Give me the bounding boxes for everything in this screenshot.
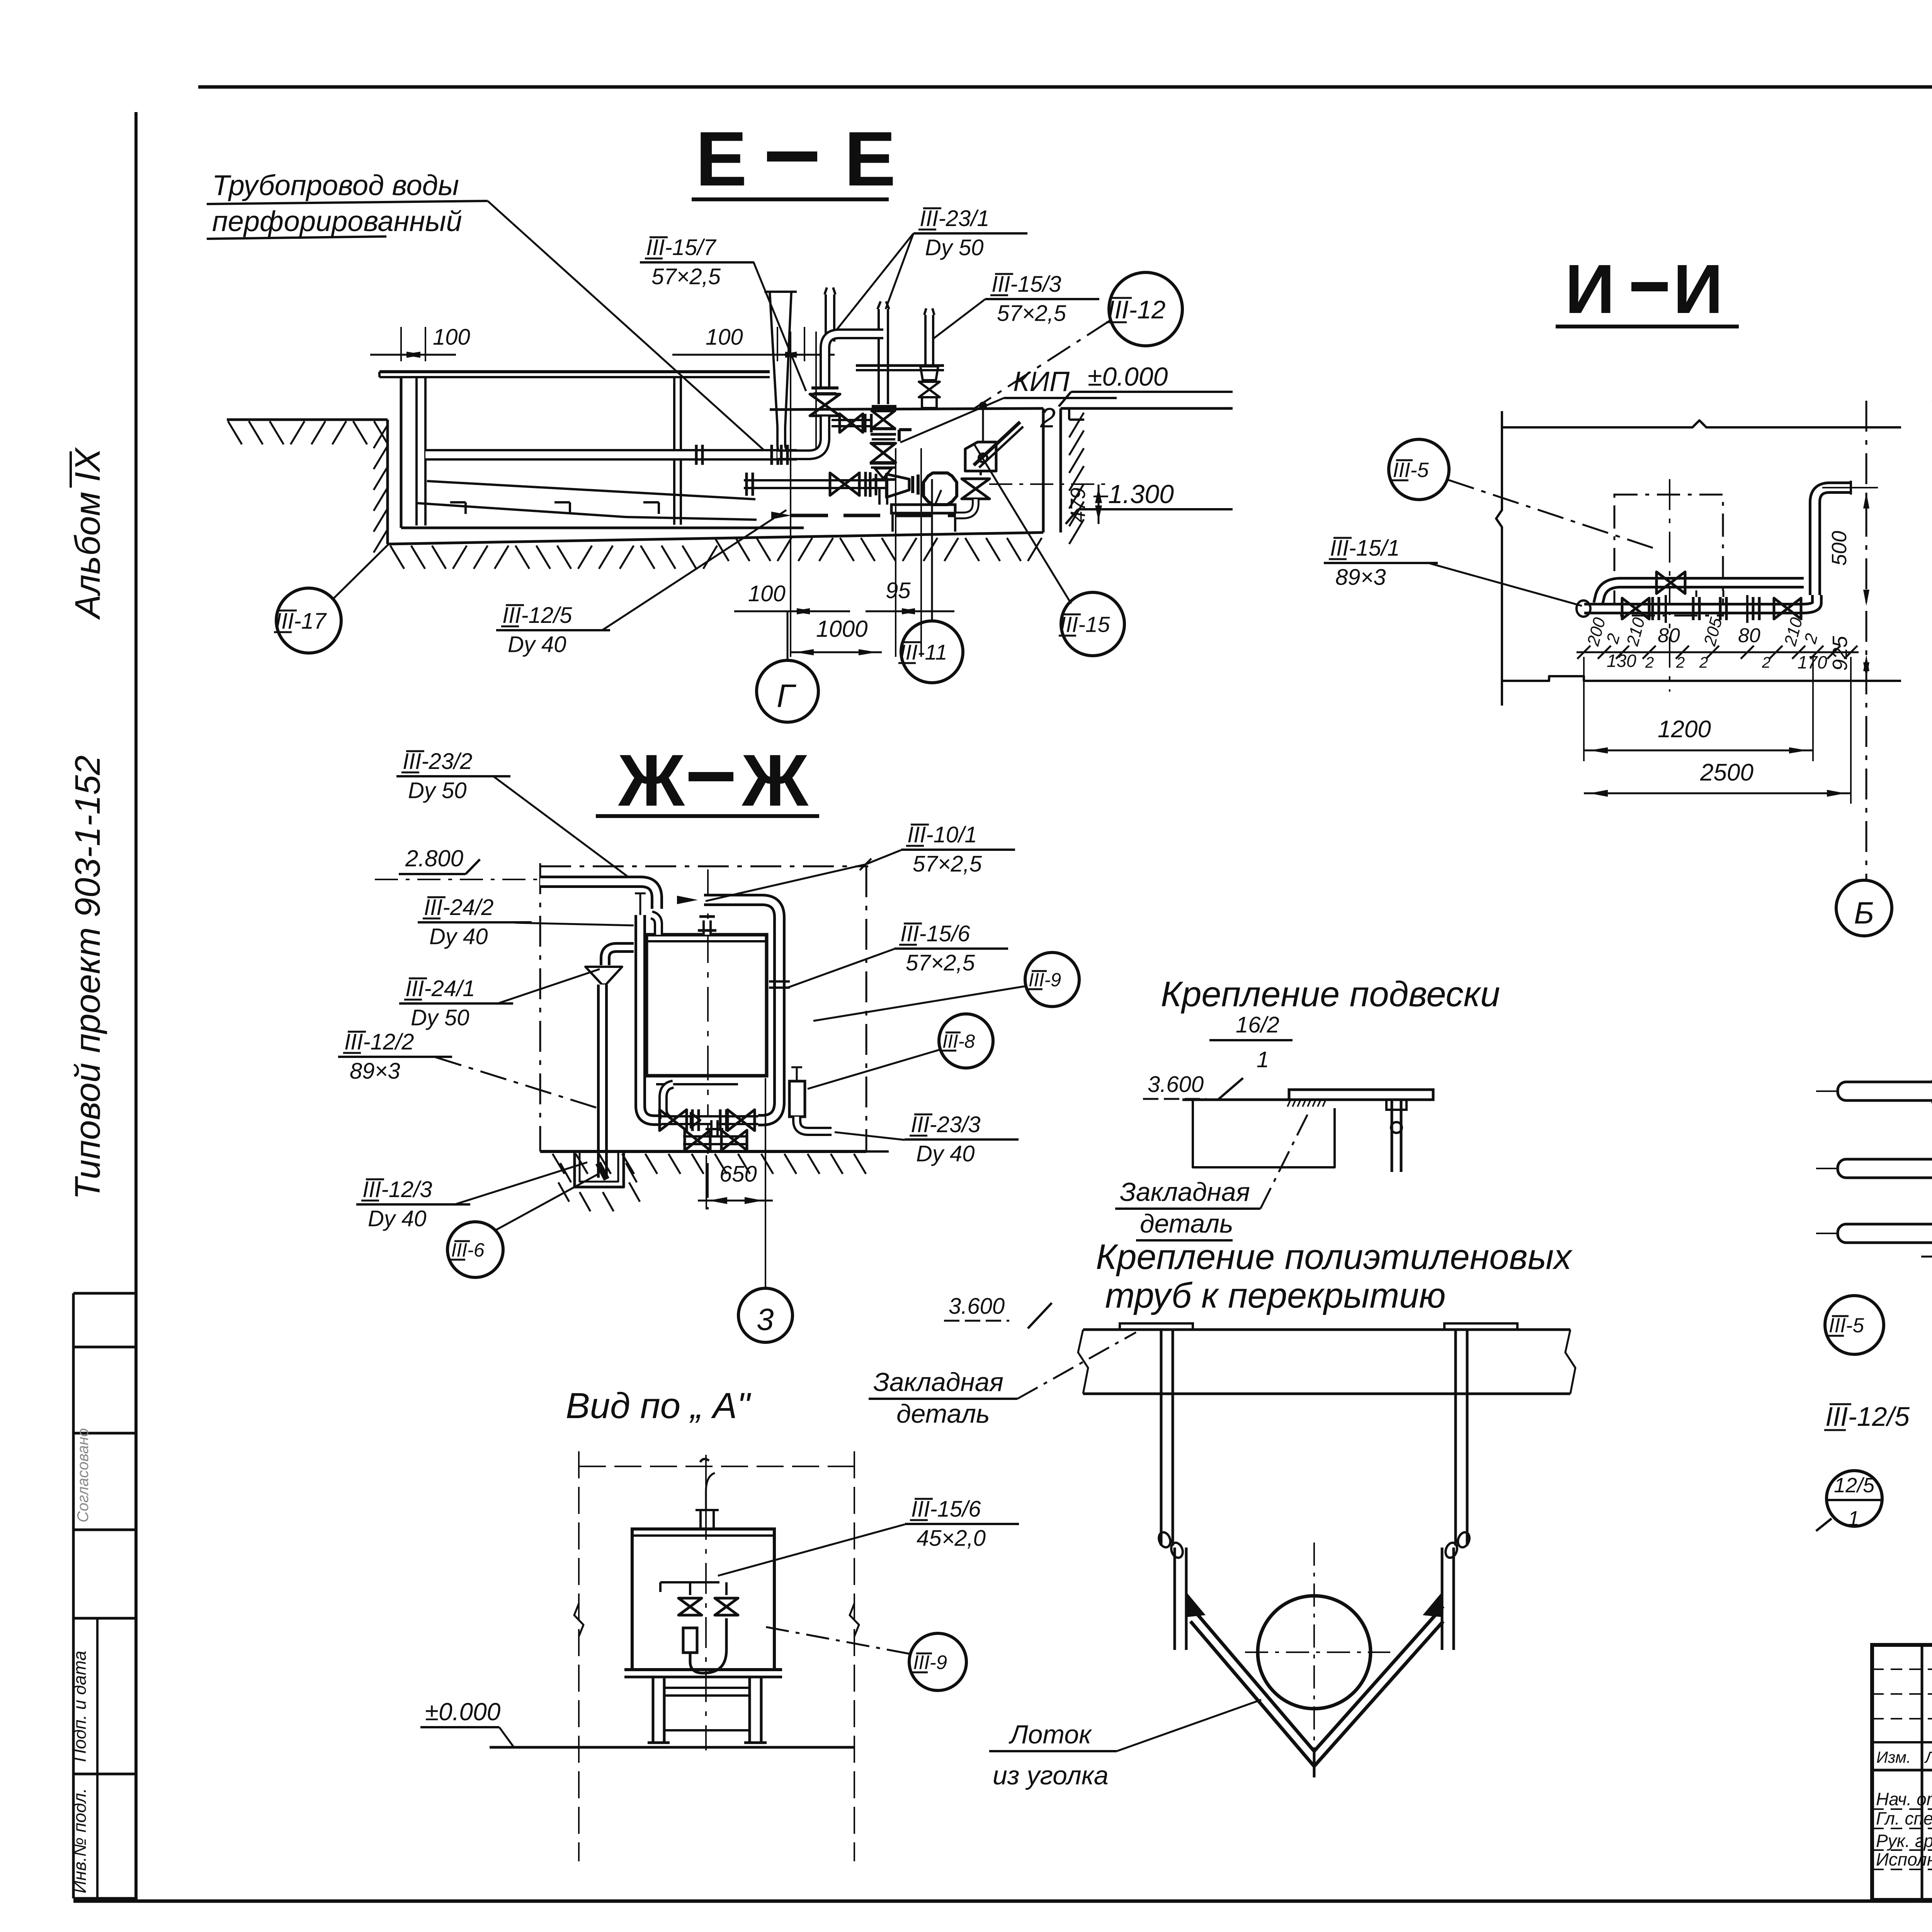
KIP level instrument box: [965, 442, 996, 471]
svg-text:III-15/6: III-15/6: [911, 1497, 981, 1522]
internal vessel: [683, 1628, 697, 1653]
svg-text:±0.000: ±0.000: [425, 1698, 501, 1726]
svg-text:III-11: III-11: [900, 640, 947, 664]
svg-text:2: 2: [1762, 654, 1770, 671]
chain dimension line I-I: [1577, 651, 1859, 653]
title block name rows: [1872, 1808, 1932, 1810]
svg-text:Dy 40: Dy 40: [429, 924, 488, 949]
position circle III-9 (Zh-Zh): [1025, 952, 1079, 1007]
hanger strap right lower: [1441, 1548, 1444, 1650]
supply pipe from wall (III-23/2): [540, 882, 657, 909]
ground line left of pit: [227, 418, 388, 421]
leader III-15/6 view A: [718, 1524, 905, 1576]
svg-text:Dy 40: Dy 40: [368, 1206, 427, 1231]
ceiling line: [1182, 1099, 1433, 1101]
svg-text:Е: Е: [844, 116, 896, 202]
ceiling slab bottom line: [1083, 1393, 1570, 1395]
embedded plate podveska: [1289, 1090, 1433, 1100]
tank body Zh-Zh: [646, 935, 767, 1076]
svg-text:Изм.: Изм.: [1876, 1748, 1911, 1766]
KIP connection rod: [982, 408, 984, 442]
svg-text:Альбом IX: Альбом IX: [68, 447, 107, 620]
perforated water pipe in tank: [425, 449, 797, 461]
funnel drain pipe: [597, 985, 608, 1178]
leader III-15/3: [934, 299, 985, 338]
flange disc on down pipe: [811, 386, 838, 389]
svg-text:Dy 50: Dy 50: [411, 1005, 469, 1030]
tank centerline view A: [705, 1455, 707, 1750]
sheet frame top border: [198, 85, 1932, 89]
manifold funnel tee: [691, 1113, 700, 1128]
svg-text:Ж: Ж: [618, 740, 685, 821]
svg-text:III-12/2: III-12/2: [344, 1029, 414, 1054]
pipe circle in trough: [1258, 1596, 1371, 1709]
svg-text:Типовой проект 903-1-152: Типовой проект 903-1-152: [68, 755, 107, 1200]
flange pair on loop riser: [769, 980, 790, 983]
leader KIP/2: [900, 398, 1004, 442]
legend pipe symbol podveska: [1816, 1233, 1932, 1234]
screwed valve on III-15/3: [919, 382, 940, 397]
svg-text:Г: Г: [777, 678, 796, 714]
room boundary dash-dot left: [539, 863, 541, 1151]
leader III-23/3: [835, 1132, 905, 1140]
leader III-15/1: [1430, 563, 1582, 606]
leader III-12/3: [454, 1162, 587, 1205]
tank bottom: [401, 527, 804, 529]
svg-text:Ж: Ж: [742, 740, 809, 821]
svg-text:3: 3: [757, 1302, 774, 1337]
small riser III-15/3 pipe: [924, 315, 934, 366]
legend circle 12/5 over 1: [1827, 1471, 1882, 1526]
suction pipe to pump: [744, 479, 886, 489]
svg-text:Согласовано: Согласовано: [75, 1428, 92, 1522]
rod nut: [1386, 1100, 1406, 1110]
tank sloped bottom lines: [427, 481, 755, 499]
sump pit under funnel pipe: [575, 1151, 624, 1187]
svg-text:деталь: деталь: [1140, 1209, 1233, 1238]
inlet loop pipe III-10/1: [704, 900, 779, 1120]
svg-text:III-12/5: III-12/5: [1825, 1401, 1910, 1432]
room boundary dash-dot top: [540, 866, 868, 867]
riser pipe III-24/2: [640, 915, 662, 1120]
supply riser III-23/1 (vertical open pipe): [878, 309, 889, 404]
svg-text:Лист: Лист: [1924, 1748, 1932, 1766]
drain overflow device: [789, 1081, 805, 1117]
gate valve on down pipe: [810, 394, 840, 416]
hanger link ovals right: [1456, 1531, 1471, 1549]
leader III-8: [808, 1049, 940, 1089]
link between manifold rows: [710, 1120, 719, 1140]
dim extension lines lower: [790, 332, 791, 657]
svg-text:Нач. отд: Нач. отд: [1876, 1789, 1932, 1809]
tank top nozzle view A: [699, 1510, 702, 1529]
pump baseplate: [891, 505, 955, 513]
leader III-11: [931, 479, 933, 621]
slab section block: [1193, 1100, 1335, 1167]
svg-text:III-15/1: III-15/1: [1330, 536, 1400, 561]
svg-text:III-12: III-12: [1107, 295, 1165, 324]
tank rim slab: [379, 370, 770, 373]
link pipe with horizontal valve: [832, 419, 872, 427]
upper pipe I-I: [1598, 583, 1799, 604]
internal pipe assembly: [660, 1581, 719, 1583]
svg-text:Рук. гр.: Рук. гр.: [1876, 1831, 1932, 1851]
pit floor: [388, 532, 1043, 544]
pump foundation: [891, 513, 894, 532]
svg-text:1200: 1200: [1658, 716, 1711, 743]
svg-text:Б: Б: [1854, 896, 1874, 930]
svg-text:2: 2: [1699, 654, 1708, 671]
manifold valves row 2: [685, 1130, 710, 1150]
svg-text:III-15/6: III-15/6: [900, 921, 970, 946]
pump shaft flanges: [911, 476, 914, 493]
tank interior support column: [673, 377, 675, 525]
sheet frame left border: [134, 112, 138, 1901]
svg-text:95: 95: [886, 578, 911, 603]
weld hatch under plate: [1287, 1100, 1291, 1107]
pump casing cone: [886, 474, 909, 497]
wall line I-I left: [1496, 411, 1502, 706]
position circle III-12: [1109, 272, 1182, 346]
svg-text:1: 1: [1848, 1507, 1859, 1530]
leader III-9: [813, 986, 1026, 1021]
leader III-6: [495, 1172, 603, 1230]
section mark circle G: [757, 660, 818, 722]
upper pipe valve: [1656, 572, 1685, 594]
embedded plate right: [1444, 1323, 1517, 1330]
svg-text:III-23/1: III-23/1: [920, 206, 990, 231]
svg-text:III-5: III-5: [1829, 1314, 1864, 1337]
svg-text:Крепление подвески: Крепление подвески: [1161, 975, 1500, 1014]
weld triangles: [1186, 1592, 1206, 1617]
internal u-pipe: [690, 1618, 726, 1673]
svg-text:Dy 50: Dy 50: [925, 235, 984, 260]
title block left table rows upper: [1872, 1668, 1932, 1670]
lower pipe I-I: [1584, 595, 1817, 609]
vent rod on riser III-24/2: [639, 893, 641, 915]
leader III-12/5: [603, 510, 786, 630]
svg-text:Dy 50: Dy 50: [408, 778, 467, 803]
svg-text:Крепление полиэтиленовых: Крепление полиэтиленовых: [1096, 1237, 1573, 1277]
svg-text:III-15: III-15: [1060, 612, 1110, 637]
leader III-15/6: [787, 949, 894, 988]
svg-text:925: 925: [1828, 636, 1852, 671]
column flange disc 2: [870, 462, 896, 465]
pump tee column: [878, 480, 881, 505]
svg-text:Инв.№ подл.: Инв.№ подл.: [70, 1788, 90, 1893]
drain pipe dashed with arrow: [956, 499, 976, 515]
overflow funnel: [585, 967, 622, 985]
tank top right nozzle with flange: [702, 920, 712, 935]
svg-text:перфорированный: перфорированный: [212, 205, 462, 237]
svg-text:2.800: 2.800: [405, 845, 463, 871]
rod eyelet: [1391, 1122, 1402, 1133]
manifold pipe row 2: [683, 1135, 748, 1145]
vertical dim arrows on axis I-I: [1863, 492, 1869, 509]
svg-text:57×2,5: 57×2,5: [906, 950, 975, 975]
svg-text:–1.300: –1.300: [1093, 480, 1174, 509]
leader III-23/2: [494, 777, 641, 887]
svg-text:±0.000: ±0.000: [1088, 362, 1168, 391]
legend pipe symbol opora nepodvizhnaya: [1816, 1090, 1932, 1092]
svg-text:III-6: III-6: [451, 1239, 485, 1261]
tank Vid po A: [632, 1529, 774, 1670]
svg-text:57×2,5: 57×2,5: [997, 301, 1066, 326]
valve under KIP: [962, 479, 990, 499]
leader III-9 view A: [760, 1626, 910, 1654]
column flange disc 1: [872, 405, 896, 408]
ceiling slab top line: [1083, 1328, 1570, 1331]
svg-text:III-23/2: III-23/2: [403, 749, 473, 774]
svg-text:деталь: деталь: [896, 1399, 990, 1429]
position circle III-15: [1061, 592, 1124, 656]
leaders III-23/1: [886, 233, 913, 309]
svg-text:12/5: 12/5: [1834, 1474, 1875, 1497]
floor line I-I: [1502, 676, 1901, 681]
svg-text:III-15/7: III-15/7: [646, 235, 717, 260]
svg-text:Гл. спец.: Гл. спец.: [1876, 1808, 1932, 1828]
svg-text:Dy 40: Dy 40: [508, 632, 566, 657]
position circle III-11: [901, 621, 963, 683]
legend position circle III-5: [1825, 1296, 1884, 1354]
svg-text:2500: 2500: [1700, 759, 1753, 786]
svg-text:труб к перекрытию: труб к перекрытию: [1105, 1276, 1446, 1315]
sump hatch: [560, 1163, 571, 1182]
leader III-24/1: [497, 969, 600, 1004]
floor line Zh-Zh: [540, 1150, 866, 1153]
equipment dashed box: [1614, 495, 1723, 616]
section mark circle B: [1836, 880, 1892, 936]
svg-text:100: 100: [433, 325, 470, 350]
legend pipe symbol opora podvizhnaya: [1816, 1168, 1932, 1169]
svg-text:III-24/2: III-24/2: [424, 895, 494, 920]
svg-text:2: 2: [1645, 654, 1654, 671]
title block outer frame: [1872, 1645, 1932, 1900]
title block left table verticals: [1921, 1645, 1923, 1900]
level line 2.800 dashed: [375, 879, 537, 880]
V-trough inner: [1190, 1621, 1443, 1766]
centerline right I-I dash-dot: [1866, 401, 1867, 879]
svg-text:III-24/1: III-24/1: [405, 976, 475, 1001]
ground line middle (pump floor): [770, 408, 1043, 410]
ground hatch below pit floor: [390, 546, 404, 569]
svg-text:100: 100: [706, 325, 743, 350]
down pipe elbow into tank pipe: [777, 417, 825, 455]
leader III-24/2: [515, 923, 634, 925]
tank base flange: [624, 1668, 782, 1671]
ground line right of pit: [1061, 407, 1233, 410]
svg-text:89×3: 89×3: [350, 1058, 400, 1083]
hanger rod left upper: [1160, 1330, 1163, 1546]
column cone into pump tee: [875, 468, 892, 478]
svg-text:III-9: III-9: [913, 1651, 947, 1673]
svg-text:500: 500: [1828, 531, 1851, 566]
svg-text:Е: Е: [696, 116, 747, 202]
manifold valves row 1: [660, 1110, 687, 1131]
gamma bracket mark: [899, 428, 912, 431]
left vent pipe open top: [825, 294, 835, 342]
leader III-15: [974, 444, 1071, 604]
svg-text:Закладная: Закладная: [873, 1367, 1003, 1397]
svg-text:1000: 1000: [816, 616, 867, 642]
branch pipe to down elbow: [825, 334, 883, 386]
tank interior bottom brackets: [450, 501, 466, 503]
tank drain elbow to manifold: [663, 1084, 674, 1120]
svg-text:Трубопровод воды: Трубопровод воды: [212, 169, 459, 201]
column gate valve upper: [872, 411, 895, 429]
tank left outer wall: [400, 377, 403, 528]
svg-text:III-23/3: III-23/3: [911, 1112, 981, 1137]
position circle III-9 view A: [909, 1633, 966, 1690]
leader III-17: [333, 543, 389, 599]
floor hatch: [553, 1154, 565, 1174]
svg-text:III-12/3: III-12/3: [362, 1177, 432, 1202]
position circle III-6: [447, 1222, 503, 1277]
svg-text:из уголка: из уголка: [993, 1761, 1109, 1790]
tank top left nozzle: [651, 915, 658, 935]
svg-text:80: 80: [1658, 624, 1680, 647]
svg-text:1: 1: [1257, 1047, 1269, 1072]
svg-text:130: 130: [1607, 651, 1636, 671]
tank bottom skirt: [656, 1075, 757, 1077]
hanger rod podveska: [1391, 1100, 1393, 1172]
tank left inner wall: [415, 377, 418, 526]
pit right wall with hatch: [1042, 408, 1045, 532]
floor line view A: [490, 1746, 854, 1749]
svg-text:3.600: 3.600: [1148, 1072, 1204, 1097]
embedded plate left: [1120, 1323, 1193, 1330]
position circle III-8: [939, 1014, 993, 1068]
svg-text:89×3: 89×3: [1335, 565, 1386, 590]
sheet frame bottom border: [73, 1900, 1932, 1903]
svg-text:III-15/3: III-15/3: [992, 272, 1061, 297]
bracket shelf: [856, 364, 944, 367]
leader III-15/7: [753, 262, 806, 391]
equipment centerline: [1669, 479, 1670, 692]
position circle III-5: [1389, 439, 1449, 500]
KIP lever arm: [974, 422, 1020, 465]
pipe centerlines: [1245, 1651, 1390, 1653]
svg-text:Подп. и дата: Подп. и дата: [70, 1651, 90, 1762]
lower pipe flanges and supports: [1651, 597, 1654, 620]
position circle III-17: [276, 588, 341, 653]
svg-text:Лоток: Лоток: [1009, 1720, 1092, 1749]
base block under III-15/3: [922, 397, 937, 408]
svg-text:И: И: [1565, 250, 1615, 328]
svg-text:III-8: III-8: [942, 1031, 975, 1052]
riser pipe right I-I: [1799, 577, 1804, 588]
svg-text:Dy 40: Dy 40: [916, 1141, 975, 1166]
leader to perforated pipe: [488, 201, 767, 453]
svg-text:57×2,5: 57×2,5: [651, 264, 721, 289]
extension to circle 3: [765, 1078, 766, 1288]
wall line I-I top: [1502, 420, 1901, 427]
stand braces: [664, 1687, 750, 1689]
tank centerline: [707, 869, 709, 1209]
svg-text:80: 80: [1738, 624, 1760, 647]
hanger link ovals left: [1157, 1531, 1172, 1549]
svg-text:650: 650: [719, 1162, 757, 1187]
svg-text:Исполн.: Исполн.: [1876, 1849, 1932, 1869]
manifold pipe row 1: [662, 1115, 758, 1125]
overflow elbow to funnel: [605, 947, 634, 965]
svg-text:100: 100: [748, 581, 786, 606]
leader lotok: [1117, 1700, 1261, 1751]
svg-text:КИП: КИП: [1013, 366, 1070, 397]
packing gland on III-15/3: [920, 366, 938, 380]
column gate valve lower: [871, 443, 896, 463]
leader III-5 dash-dot: [1448, 480, 1658, 549]
leader zakladnaya detal 2: [1017, 1332, 1136, 1399]
column twin flange discs: [871, 428, 896, 430]
leader III-12 dash-dot: [974, 321, 1110, 409]
drain pipe right exit: [797, 1117, 832, 1131]
leader zakladnaya detal: [1260, 1110, 1310, 1209]
svg-text:III-9: III-9: [1029, 970, 1061, 991]
lower pipe valves: [1622, 598, 1649, 619]
stand feet: [648, 1742, 670, 1744]
svg-text:III-12/5: III-12/5: [502, 603, 572, 628]
leader III-10/1: [866, 850, 901, 864]
view frame dashed: [578, 1451, 580, 1861]
svg-text:3.600: 3.600: [949, 1294, 1005, 1319]
leader III-12/2 dash-dot: [435, 1057, 598, 1108]
svg-text:III-10/1: III-10/1: [907, 822, 977, 847]
svg-text:45×2,0: 45×2,0: [917, 1526, 986, 1551]
svg-text:И: И: [1673, 250, 1723, 328]
section mark circle 3: [738, 1288, 793, 1342]
svg-text:2: 2: [1676, 654, 1685, 671]
suction centerline extension: [989, 483, 1106, 485]
pit left wall: [386, 420, 389, 544]
svg-text:57×2,5: 57×2,5: [913, 851, 982, 876]
suction gate valve: [830, 473, 859, 495]
svg-text:Закладная: Закладная: [1120, 1177, 1250, 1207]
svg-text:16/2: 16/2: [1236, 1012, 1279, 1037]
hanger rod right upper: [1454, 1330, 1457, 1546]
svg-text:Вид по „ А": Вид по „ А": [566, 1385, 751, 1426]
V-trough outer: [1190, 1606, 1443, 1751]
hanger strap left lower: [1173, 1548, 1176, 1650]
left margin stamp column: [72, 1293, 75, 1898]
svg-text:III-17: III-17: [275, 609, 327, 634]
stand legs: [652, 1677, 655, 1743]
electric motor: [923, 473, 957, 505]
funnel riser above tank: [770, 292, 777, 427]
room boundary dash right: [866, 866, 867, 1151]
svg-text:III-5: III-5: [1393, 458, 1429, 481]
